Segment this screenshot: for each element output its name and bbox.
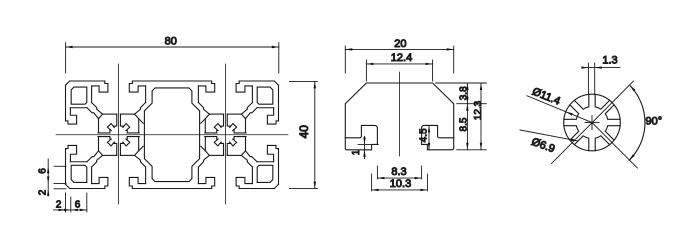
dimension 20 — [344, 46, 346, 73]
slot cavity wall left — [197, 86, 199, 103]
leader diameter 6.9 — [520, 130, 578, 141]
slot wall-to-floor diagonal right — [135, 103, 146, 115]
svg-text:8.3: 8.3 — [391, 166, 406, 178]
slot detail right lip hook — [422, 125, 454, 144]
frame corner chamfer — [241, 114, 245, 119]
slot wall-to-floor diagonal right — [241, 155, 252, 167]
corner cavity — [71, 165, 87, 182]
45-degree line SE — [592, 123, 637, 169]
svg-text:3.8: 3.8 — [459, 86, 470, 100]
slot cavity wall left — [197, 167, 199, 184]
vertical centerline module 2 — [224, 64, 226, 204]
45-degree line NE-SW — [552, 81, 634, 164]
slot cavity wall left — [91, 167, 93, 184]
slot cavity wall right — [145, 86, 147, 103]
dimension 1 — [358, 143, 378, 145]
floor segment — [120, 113, 134, 115]
star screw channel at x=225 — [205, 114, 246, 155]
frame corner chamfer — [135, 151, 139, 156]
rib blocks — [564, 94, 620, 150]
T-slot lip right (top slot x=119) — [129, 81, 145, 92]
svg-text:2: 2 — [38, 189, 49, 195]
arc arrow top — [630, 85, 636, 91]
side slot wall-to-floor diagonal upper — [87, 108, 99, 119]
svg-text:Ø11.4: Ø11.4 — [530, 86, 562, 108]
bottom-right corner chamfer — [274, 184, 278, 188]
floor segment — [120, 154, 134, 156]
svg-text:20: 20 — [394, 38, 406, 50]
short web diagonal module1 E — [139, 146, 144, 151]
side T-slot lip upper — [267, 108, 278, 124]
side slot wall-to-floor diagonal upper — [245, 108, 257, 119]
dimension 2 left lower — [54, 188, 66, 190]
floor segment — [227, 154, 241, 156]
side floor segment — [98, 119, 100, 133]
svg-text:10.3: 10.3 — [390, 178, 411, 190]
outer left surface lower segment — [65, 149, 67, 185]
dimension 6 left lower — [54, 165, 66, 167]
frame corner chamfer — [99, 151, 103, 156]
frame corner chamfer — [241, 151, 245, 156]
outer right surface lower segment — [278, 149, 280, 185]
dimension 3.8 — [436, 82, 487, 84]
svg-text:12.4: 12.4 — [391, 52, 412, 64]
outer bottom surface left segment — [70, 188, 105, 190]
side floor segment — [98, 137, 100, 151]
short web diagonal module1 E — [139, 119, 144, 124]
outer bottom surface middle segment — [132, 188, 211, 190]
corner cavity — [257, 165, 273, 182]
T-slot lip right (top slot x=225) — [236, 81, 252, 92]
side floor segment — [138, 119, 140, 133]
middle view centerline — [399, 72, 401, 156]
side floor segment — [138, 137, 140, 151]
dimension 6 bottom — [64, 209, 71, 211]
side slot cavity wall upper — [257, 107, 274, 109]
slot wall-to-floor diagonal right — [135, 155, 146, 167]
T-slot lip left — [92, 177, 108, 188]
right view: screw channel outer circle — [564, 94, 621, 151]
side slot cavity wall lower — [257, 161, 274, 163]
floor segment — [103, 154, 117, 156]
dimension 2 bottom — [65, 193, 67, 212]
slot wall-to-floor diagonal left — [92, 155, 103, 167]
slot wall-to-floor diagonal left — [92, 103, 103, 115]
side T-slot lip lower — [66, 145, 77, 161]
T-slot lip left — [198, 177, 214, 188]
outer bottom surface right segment — [239, 188, 274, 190]
outer top surface middle segment — [132, 80, 211, 82]
side T-slot lip lower — [267, 145, 278, 161]
dimension 4.5 — [426, 124, 434, 126]
corner cavity — [71, 87, 87, 104]
slot wall-to-floor diagonal left — [198, 103, 209, 115]
dimension 12.4 — [365, 60, 367, 81]
svg-text:12.3: 12.3 — [473, 100, 484, 120]
dimension 80 top — [65, 43, 67, 73]
top-right corner chamfer — [274, 81, 278, 85]
side slot wall-to-floor diagonal lower — [87, 151, 99, 162]
outer top surface left segment — [70, 80, 105, 82]
svg-text:1: 1 — [351, 149, 362, 155]
T-slot lip left — [92, 81, 108, 92]
T-slot lip left — [198, 81, 214, 92]
side floor segment — [245, 137, 247, 151]
star screw channel at x=119 — [98, 114, 139, 155]
slot detail left lip hook — [345, 125, 377, 144]
svg-text:Ø6.9: Ø6.9 — [530, 136, 557, 155]
svg-text:6: 6 — [38, 168, 49, 174]
center mark vertical — [591, 116, 593, 130]
horizontal centerline — [56, 134, 288, 136]
bottom-left corner chamfer — [66, 184, 70, 188]
svg-text:1.3: 1.3 — [602, 55, 617, 67]
dimension 8.5 — [457, 149, 487, 151]
floor segment — [103, 113, 117, 115]
svg-text:90°: 90° — [646, 116, 663, 128]
slot cavity wall left — [91, 86, 93, 103]
central cavity outline — [144, 88, 199, 182]
slot wall-to-floor diagonal left — [198, 155, 209, 167]
outer left surface upper segment — [65, 85, 67, 121]
floor segment — [209, 154, 223, 156]
svg-text:4.5: 4.5 — [419, 128, 430, 142]
slot wall-to-floor diagonal right — [241, 103, 252, 115]
top-left corner chamfer — [66, 81, 70, 85]
svg-text:8.5: 8.5 — [459, 117, 470, 131]
side slot wall-to-floor diagonal lower — [245, 151, 257, 162]
dimension 40 right — [289, 80, 317, 82]
short web diagonal module2 W — [201, 146, 206, 151]
center mark horizontal — [585, 122, 599, 124]
outer right surface upper segment — [278, 85, 280, 121]
svg-text:80: 80 — [165, 36, 177, 48]
side slot cavity wall upper — [70, 107, 87, 109]
floor segment — [209, 113, 223, 115]
arc arrow bottom — [629, 154, 635, 160]
slot cavity wall right — [145, 167, 147, 184]
frame corner chamfer — [135, 114, 139, 119]
slot cavity wall right — [251, 86, 253, 103]
side floor segment — [204, 119, 206, 133]
svg-text:6: 6 — [75, 200, 81, 211]
arc — [629, 85, 645, 160]
frame corner chamfer — [205, 114, 209, 119]
dimension 8.3 — [376, 166, 378, 179]
side floor segment — [245, 119, 247, 133]
vertical centerline module 1 — [118, 64, 120, 204]
outer top surface right segment — [239, 80, 274, 82]
side floor segment — [204, 137, 206, 151]
svg-text:2: 2 — [56, 200, 62, 211]
dimension 1.3 slit width — [587, 63, 589, 94]
leader diameter 11.4 — [527, 96, 592, 123]
frame corner chamfer — [205, 151, 209, 156]
T-slot lip right (bottom slot x=225) — [236, 177, 252, 188]
frame corner chamfer — [99, 114, 103, 119]
slot detail outer outline — [345, 83, 453, 150]
dimension 10.3 — [371, 174, 373, 191]
side slot cavity wall lower — [70, 161, 87, 163]
corner cavity — [257, 87, 273, 104]
floor segment — [227, 113, 241, 115]
short web diagonal module2 W — [201, 119, 206, 124]
slot cavity wall right — [251, 167, 253, 184]
svg-text:40: 40 — [297, 125, 311, 139]
side T-slot lip upper — [66, 108, 77, 124]
dimension 12.3 — [480, 83, 482, 150]
T-slot lip right (bottom slot x=119) — [129, 177, 145, 188]
